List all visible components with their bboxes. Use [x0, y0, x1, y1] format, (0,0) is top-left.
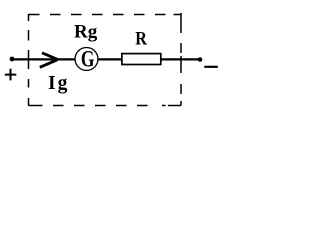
dashed enclosure box right edge — [180, 13, 182, 106]
terminal node right dot — [198, 57, 203, 62]
terminal node left dot — [10, 57, 15, 62]
svg-text:Ig: Ig — [48, 73, 69, 94]
resistor R body — [122, 54, 161, 65]
wire main horizontal — [12, 58, 200, 60]
plus terminal sign — [5, 69, 16, 81]
galvanometer G circle — [75, 48, 98, 71]
svg-text:R: R — [135, 27, 147, 49]
dashed enclosure box left edge — [28, 14, 30, 106]
dashed enclosure box top edge — [29, 14, 182, 16]
dashed enclosure box bottom edge — [29, 105, 182, 107]
svg-text:G: G — [81, 47, 95, 72]
current direction arrow upper stroke — [42, 53, 57, 60]
current direction arrow lower stroke — [40, 60, 58, 68]
svg-text:Rg: Rg — [74, 22, 98, 43]
minus terminal sign — [204, 66, 218, 68]
